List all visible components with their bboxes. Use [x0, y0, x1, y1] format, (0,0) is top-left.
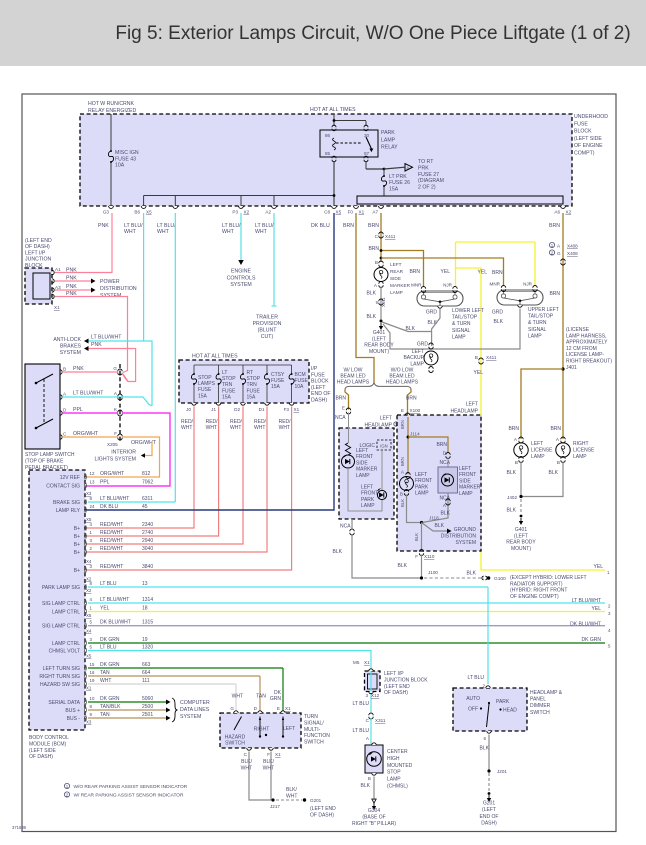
svg-text:PARK LAMP SIG: PARK LAMP SIG — [42, 585, 80, 591]
svg-text:10A: 10A — [295, 384, 305, 390]
svg-text:SWITCH: SWITCH — [225, 741, 245, 747]
svg-text:TAN: TAN — [100, 712, 110, 718]
svg-text:B: B — [63, 367, 66, 372]
svg-text:15: 15 — [90, 662, 95, 667]
svg-text:RIGHT: RIGHT — [254, 727, 270, 733]
svg-text:LEFT I/P: LEFT I/P — [25, 250, 46, 256]
svg-text:FUSE 27: FUSE 27 — [418, 172, 439, 178]
svg-text:B+: B+ — [74, 526, 80, 532]
svg-text:RED/: RED/ — [181, 419, 194, 425]
svg-text:DIMMER: DIMMER — [530, 703, 551, 709]
svg-text:18: 18 — [142, 606, 148, 612]
svg-text:FUSE: FUSE — [271, 378, 285, 384]
svg-text:15A: 15A — [247, 394, 257, 400]
svg-text:BLK: BLK — [414, 533, 419, 541]
svg-text:SIGNAL: SIGNAL — [452, 328, 471, 334]
svg-text:HAZARD SW SIG: HAZARD SW SIG — [40, 682, 80, 688]
svg-text:X205: X205 — [107, 442, 118, 447]
svg-text:G401: G401 — [373, 330, 385, 336]
svg-text:LOWER LEFT: LOWER LEFT — [452, 308, 484, 314]
svg-text:3040: 3040 — [142, 546, 153, 552]
svg-text:LAMP RLY: LAMP RLY — [56, 508, 81, 514]
svg-text:RT: RT — [247, 370, 254, 376]
svg-text:X408: X408 — [567, 244, 578, 249]
svg-text:BCM: BCM — [295, 372, 306, 378]
svg-text:LEFT: LEFT — [459, 466, 471, 472]
svg-text:BLK: BLK — [467, 571, 477, 577]
svg-text:SIDE: SIDE — [390, 276, 401, 281]
svg-text:(LEFT END: (LEFT END — [310, 806, 336, 812]
svg-text:86: 86 — [325, 133, 331, 138]
svg-text:BLK/: BLK/ — [286, 787, 297, 793]
svg-text:LEFT TURN SIG: LEFT TURN SIG — [43, 666, 80, 672]
svg-text:3: 3 — [365, 693, 368, 698]
svg-text:TAIL/STOP: TAIL/STOP — [452, 315, 478, 321]
svg-text:X5: X5 — [146, 210, 152, 215]
svg-text:WHT: WHT — [124, 229, 137, 235]
svg-text:G201: G201 — [310, 798, 322, 803]
svg-text:J402: J402 — [507, 495, 517, 500]
svg-text:LT BLU/WHT: LT BLU/WHT — [100, 496, 129, 502]
svg-text:CONTACT SIG: CONTACT SIG — [46, 484, 80, 490]
svg-text:LT BLU: LT BLU — [468, 675, 485, 681]
svg-text:2340: 2340 — [142, 522, 153, 528]
svg-text:NCA: NCA — [439, 496, 450, 502]
svg-text:LT BLU/: LT BLU/ — [222, 223, 241, 229]
svg-text:SIG LAMP CTRL: SIG LAMP CTRL — [42, 601, 80, 607]
svg-text:RIGHT TURN SIG: RIGHT TURN SIG — [39, 674, 80, 680]
svg-text:LAMP: LAMP — [459, 491, 473, 497]
svg-text:J100: J100 — [428, 570, 438, 575]
svg-text:CTSY: CTSY — [271, 372, 285, 378]
svg-text:LT BLU/WHT: LT BLU/WHT — [572, 598, 601, 604]
svg-text:X100: X100 — [410, 408, 421, 413]
svg-text:NCA: NCA — [340, 524, 351, 530]
svg-text:TURN: TURN — [304, 714, 318, 720]
svg-text:YEL: YEL — [478, 270, 488, 276]
svg-text:LT BLU/WHT: LT BLU/WHT — [73, 391, 104, 397]
svg-text:LEFT: LEFT — [356, 448, 368, 454]
svg-text:HIGH: HIGH — [387, 756, 400, 762]
svg-text:(LEFT: (LEFT — [311, 385, 326, 391]
svg-text:BRN: BRN — [550, 426, 561, 432]
svg-text:BACKUP: BACKUP — [403, 355, 424, 361]
svg-text:I/P: I/P — [311, 366, 318, 372]
svg-text:MULTI-: MULTI- — [304, 727, 321, 733]
svg-text:WHT: WHT — [241, 765, 252, 771]
svg-text:RED/WHT: RED/WHT — [100, 522, 123, 528]
svg-text:LEFT: LEFT — [415, 472, 427, 478]
svg-text:BLK: BLK — [367, 314, 377, 320]
svg-text:MISC IGN: MISC IGN — [115, 150, 139, 156]
svg-text:LEFT: LEFT — [283, 726, 295, 732]
svg-text:WHT: WHT — [254, 425, 265, 431]
svg-text:SWITCH: SWITCH — [530, 710, 550, 716]
svg-text:664: 664 — [142, 670, 151, 676]
svg-text:ENGINE: ENGINE — [231, 269, 251, 275]
svg-text:(HYBRID: RIGHT FRONT: (HYBRID: RIGHT FRONT — [510, 588, 567, 594]
svg-text:WHT: WHT — [222, 229, 235, 235]
svg-text:B: B — [375, 260, 378, 265]
svg-text:X311: X311 — [375, 718, 386, 723]
svg-text:SYSTEM: SYSTEM — [60, 350, 81, 356]
svg-text:CENTER: CENTER — [387, 749, 408, 755]
svg-text:HOT AT ALL TIMES: HOT AT ALL TIMES — [310, 107, 356, 113]
svg-text:15A: 15A — [271, 384, 281, 390]
svg-text:15A: 15A — [198, 393, 208, 399]
svg-text:BLK: BLK — [507, 470, 517, 476]
svg-text:LT BLU/: LT BLU/ — [255, 223, 274, 229]
svg-text:GRD: GRD — [492, 310, 504, 316]
svg-text:LT BLU: LT BLU — [100, 645, 117, 651]
svg-text:X1: X1 — [294, 407, 300, 412]
svg-text:X1: X1 — [54, 305, 60, 310]
svg-text:B: B — [368, 776, 371, 781]
svg-text:DK GRN: DK GRN — [100, 662, 120, 668]
svg-text:LT BLU/WHT: LT BLU/WHT — [91, 335, 122, 341]
svg-text:A2: A2 — [265, 210, 271, 215]
svg-text:LAMP: LAMP — [387, 777, 401, 783]
svg-text:ORG/WHT: ORG/WHT — [131, 440, 157, 446]
svg-text:MNR: MNR — [411, 283, 422, 288]
svg-text:FUSE: FUSE — [222, 388, 236, 394]
svg-text:LAMP: LAMP — [356, 473, 370, 479]
svg-text:LICENSE: LICENSE — [573, 448, 595, 454]
svg-text:15A: 15A — [222, 394, 232, 400]
svg-text:1320: 1320 — [142, 645, 153, 651]
svg-text:GRD: GRD — [426, 310, 438, 316]
svg-text:ANTI-LOCK: ANTI-LOCK — [53, 337, 81, 343]
svg-text:TAN: TAN — [100, 670, 110, 676]
svg-text:LEFT: LEFT — [531, 441, 543, 447]
svg-text:A7: A7 — [372, 210, 378, 215]
svg-text:STOP: STOP — [387, 770, 401, 776]
svg-text:LAMP: LAMP — [573, 454, 587, 460]
svg-text:J0: J0 — [186, 407, 191, 412]
svg-text:LICENSE: LICENSE — [531, 448, 553, 454]
svg-text:X1: X1 — [359, 210, 365, 215]
svg-text:FUSE: FUSE — [574, 121, 588, 127]
svg-text:BUS +: BUS + — [65, 708, 80, 714]
svg-text:(BASE OF: (BASE OF — [362, 814, 385, 820]
svg-text:POWER: POWER — [100, 279, 120, 285]
svg-text:6: 6 — [483, 736, 486, 741]
svg-text:B: B — [475, 355, 478, 360]
svg-text:LEFT: LEFT — [390, 262, 402, 267]
svg-text:LT BLU/: LT BLU/ — [157, 223, 176, 229]
svg-text:OF ENGINE COMPT): OF ENGINE COMPT) — [510, 594, 559, 600]
svg-text:SYSTEM: SYSTEM — [455, 540, 476, 546]
svg-text:111: 111 — [142, 678, 150, 684]
svg-text:B+: B+ — [74, 550, 80, 556]
svg-text:LT BLU: LT BLU — [353, 701, 370, 707]
svg-text:UPPER LEFT: UPPER LEFT — [528, 307, 559, 313]
svg-text:BLOCK: BLOCK — [311, 379, 329, 385]
svg-text:X408: X408 — [567, 251, 578, 256]
svg-text:G: G — [113, 366, 117, 371]
svg-text:JUNCTION: JUNCTION — [25, 257, 51, 263]
svg-text:(LEFT: (LEFT — [482, 807, 496, 813]
svg-text:LAMP: LAMP — [390, 290, 403, 295]
svg-text:WHT: WHT — [286, 793, 297, 799]
svg-text:BLK: BLK — [507, 508, 517, 514]
svg-text:BODY CONTROL: BODY CONTROL — [29, 735, 69, 741]
svg-text:PNK: PNK — [66, 284, 77, 290]
svg-text:BRN: BRN — [549, 291, 560, 297]
svg-text:G: G — [230, 706, 234, 711]
svg-text:12: 12 — [90, 471, 95, 476]
svg-text:TRAILER: TRAILER — [256, 315, 278, 321]
svg-text:87: 87 — [364, 151, 370, 156]
svg-text:FRONT: FRONT — [361, 491, 378, 497]
svg-text:24: 24 — [90, 504, 95, 509]
svg-text:BLK: BLK — [398, 563, 408, 569]
svg-text:WHT: WHT — [263, 765, 274, 771]
svg-text:WHT: WHT — [181, 425, 192, 431]
svg-text:LAMP CTRL: LAMP CTRL — [52, 641, 80, 647]
svg-text:NCA: NCA — [335, 415, 346, 421]
svg-text:WHT: WHT — [232, 694, 243, 700]
svg-text:BRAKES: BRAKES — [60, 343, 82, 349]
svg-text:BLK: BLK — [480, 746, 490, 752]
svg-text:RED/WHT: RED/WHT — [100, 530, 123, 536]
svg-text:MOUNT): MOUNT) — [369, 349, 389, 355]
svg-text:12V REF: 12V REF — [60, 475, 80, 481]
svg-text:BRN: BRN — [409, 269, 420, 275]
svg-text:F0: F0 — [348, 210, 354, 215]
svg-text:(LEFT: (LEFT — [372, 336, 386, 342]
svg-text:J118: J118 — [429, 516, 439, 521]
svg-text:TAN/BLK: TAN/BLK — [100, 704, 121, 710]
svg-text:YEL: YEL — [474, 370, 484, 376]
svg-text:Fig 5: Exterior Lamps Circuit,: Fig 5: Exterior Lamps Circuit, W/O One P… — [115, 23, 630, 44]
svg-text:BLK: BLK — [333, 549, 343, 555]
svg-text:HEADLAMP: HEADLAMP — [450, 409, 478, 415]
svg-text:663: 663 — [142, 662, 151, 668]
svg-text:CONTROLS: CONTROLS — [227, 275, 256, 281]
svg-text:RED/: RED/ — [206, 419, 219, 425]
svg-text:LEFT: LEFT — [380, 416, 392, 422]
svg-text:BLK: BLK — [367, 291, 377, 297]
svg-text:LT: LT — [222, 370, 227, 376]
svg-text:LAMP: LAMP — [528, 333, 542, 339]
svg-text:COMPT): COMPT) — [574, 151, 595, 157]
svg-text:MNR: MNR — [490, 282, 501, 287]
svg-text:LT BLU: LT BLU — [100, 581, 117, 587]
svg-text:STOP: STOP — [247, 376, 261, 382]
svg-text:B: B — [400, 492, 403, 497]
svg-text:OF DASH): OF DASH) — [310, 813, 334, 819]
svg-text:A3: A3 — [55, 285, 61, 290]
svg-text:X110: X110 — [424, 554, 435, 559]
svg-text:X1: X1 — [86, 686, 92, 691]
svg-text:OF DASH): OF DASH) — [29, 754, 53, 760]
svg-text:X5: X5 — [86, 613, 92, 618]
svg-text:LAMP HARNESS,: LAMP HARNESS, — [566, 333, 606, 339]
svg-text:(DIAGRAM: (DIAGRAM — [418, 178, 444, 184]
svg-text:RED/WHT: RED/WHT — [100, 538, 123, 544]
svg-text:LEFT: LEFT — [361, 485, 373, 491]
svg-text:HAZARD: HAZARD — [225, 735, 246, 741]
svg-text:REAR: REAR — [390, 269, 404, 274]
svg-text:PNK: PNK — [98, 223, 109, 229]
svg-text:SIDE: SIDE — [459, 478, 471, 484]
svg-text:PARK: PARK — [381, 130, 395, 136]
svg-text:(LICENSE: (LICENSE — [566, 327, 590, 333]
svg-text:X5: X5 — [86, 654, 92, 659]
svg-text:LEFT: LEFT — [412, 349, 424, 355]
svg-text:DK BLU/WHT: DK BLU/WHT — [570, 622, 601, 628]
svg-text:LEFT: LEFT — [466, 402, 478, 408]
svg-text:A6: A6 — [554, 210, 560, 215]
svg-text:LAMP CTRL: LAMP CTRL — [52, 610, 80, 616]
svg-text:E: E — [277, 706, 280, 711]
svg-text:LAMP: LAMP — [415, 491, 429, 497]
svg-text:1315: 1315 — [142, 620, 153, 626]
svg-text:DK BLU: DK BLU — [311, 223, 330, 229]
svg-text:TO RT: TO RT — [418, 159, 434, 165]
svg-text:IGN: IGN — [380, 443, 387, 448]
svg-text:ORG/WHT: ORG/WHT — [73, 431, 99, 437]
svg-text:BRN: BRN — [343, 223, 354, 229]
svg-text:FUSE: FUSE — [295, 378, 309, 384]
svg-text:(EXCEPT HYBRID: LOWER LEFT: (EXCEPT HYBRID: LOWER LEFT — [510, 575, 587, 581]
svg-text:OF ENGINE: OF ENGINE — [574, 143, 603, 149]
svg-text:G3: G3 — [103, 210, 110, 215]
svg-text:371639: 371639 — [12, 825, 27, 830]
svg-text:J114: J114 — [410, 432, 420, 437]
svg-text:HOT AT ALL TIMES: HOT AT ALL TIMES — [192, 354, 238, 360]
svg-text:(BLUNT: (BLUNT — [258, 328, 278, 334]
svg-text:G100: G100 — [494, 576, 506, 582]
svg-text:X411: X411 — [381, 297, 386, 307]
svg-text:BLK: BLK — [549, 470, 559, 476]
svg-text:G: G — [557, 251, 561, 256]
svg-text:SYSTEM: SYSTEM — [180, 714, 201, 720]
svg-text:RADIATOR SUPPORT): RADIATOR SUPPORT) — [510, 581, 563, 587]
svg-text:FUSE: FUSE — [311, 372, 325, 378]
svg-text:HEAD LAMPS: HEAD LAMPS — [386, 380, 419, 386]
svg-text:RIGHT BREAKOUT): RIGHT BREAKOUT) — [566, 359, 612, 365]
svg-text:BRN: BRN — [335, 396, 346, 402]
svg-text:F: F — [267, 752, 270, 757]
svg-text:X1: X1 — [364, 660, 370, 665]
svg-text:FUSE 26: FUSE 26 — [389, 180, 410, 186]
svg-text:PROVISION: PROVISION — [253, 321, 282, 327]
svg-text:10: 10 — [90, 696, 95, 701]
svg-text:PARK: PARK — [496, 699, 510, 705]
svg-text:BRN: BRN — [368, 223, 379, 229]
svg-text:(LEFT SIDE: (LEFT SIDE — [29, 748, 57, 754]
svg-text:5060: 5060 — [142, 696, 153, 702]
svg-text:(LEFT: (LEFT — [514, 533, 528, 539]
svg-text:DK GRN: DK GRN — [582, 637, 602, 643]
svg-text:BLK: BLK — [406, 326, 416, 332]
svg-text:END OF: END OF — [311, 391, 331, 397]
svg-text:P3: P3 — [232, 210, 238, 215]
svg-text:13: 13 — [142, 581, 148, 587]
svg-text:RIGHT "B" PILLAR): RIGHT "B" PILLAR) — [352, 821, 396, 827]
svg-text:1314: 1314 — [142, 597, 153, 603]
svg-text:A1: A1 — [55, 267, 61, 272]
svg-text:(LEFT END: (LEFT END — [25, 238, 52, 244]
svg-text:BLOCK: BLOCK — [574, 129, 592, 135]
svg-text:BRN: BRN — [400, 457, 405, 466]
svg-text:MARKER: MARKER — [356, 467, 378, 473]
svg-text:RED/WHT: RED/WHT — [100, 564, 123, 570]
svg-text:F: F — [415, 554, 418, 559]
svg-text:19: 19 — [142, 637, 148, 643]
svg-text:YEL: YEL — [594, 564, 604, 570]
svg-text:D2: D2 — [234, 407, 240, 412]
svg-text:FUNCTION: FUNCTION — [304, 733, 330, 739]
svg-text:B: B — [515, 460, 518, 465]
svg-text:SYSTEM: SYSTEM — [230, 282, 251, 288]
svg-text:(LEFT SIDE: (LEFT SIDE — [574, 136, 602, 142]
svg-text:LT BLU: LT BLU — [353, 728, 370, 734]
svg-text:PPL: PPL — [73, 407, 83, 413]
svg-text:CUT): CUT) — [261, 334, 274, 340]
svg-text:STOP LAMP SWITCH: STOP LAMP SWITCH — [25, 452, 75, 458]
svg-text:NJR: NJR — [443, 283, 453, 288]
svg-text:PARK: PARK — [361, 497, 375, 503]
svg-text:BLK/: BLK/ — [263, 759, 274, 765]
svg-text:BLK: BLK — [400, 499, 405, 507]
svg-text:HEADLAMP &: HEADLAMP & — [530, 690, 563, 696]
svg-text:J201: J201 — [497, 769, 507, 774]
svg-text:WHT: WHT — [279, 425, 290, 431]
svg-text:G201: G201 — [483, 801, 495, 807]
svg-text:X411: X411 — [486, 355, 497, 360]
svg-text:X1: X1 — [275, 752, 281, 757]
svg-text:LT BLU/: LT BLU/ — [124, 223, 143, 229]
svg-text:DATA LINES: DATA LINES — [180, 707, 210, 713]
svg-text:GROUND: GROUND — [454, 527, 477, 533]
svg-text:BRN: BRN — [368, 246, 379, 252]
svg-text:FUSE 43: FUSE 43 — [115, 156, 136, 162]
svg-text:DK BLU/WHT: DK BLU/WHT — [100, 620, 131, 626]
svg-text:G304: G304 — [368, 808, 380, 814]
svg-text:812: 812 — [142, 471, 151, 477]
svg-text:BRN: BRN — [436, 442, 447, 448]
svg-text:45: 45 — [142, 504, 148, 510]
svg-text:BLK: BLK — [361, 783, 371, 789]
svg-text:DK BLU: DK BLU — [100, 504, 118, 510]
svg-text:APPROXIMATELY: APPROXIMATELY — [566, 340, 608, 346]
svg-text:RIGHT: RIGHT — [573, 441, 589, 447]
svg-text:SIGNAL: SIGNAL — [528, 327, 547, 333]
svg-text:G401: G401 — [515, 527, 527, 533]
svg-text:X411: X411 — [385, 234, 396, 239]
svg-text:DK GRN: DK GRN — [100, 637, 120, 643]
svg-text:X2: X2 — [244, 210, 250, 215]
svg-text:YEL: YEL — [441, 269, 451, 275]
svg-text:MARKER: MARKER — [390, 283, 411, 288]
svg-text:PNK: PNK — [91, 342, 102, 348]
svg-text:NCA: NCA — [439, 460, 450, 466]
svg-text:RED/WHT: RED/WHT — [100, 546, 123, 552]
svg-text:CHMSL VOLT: CHMSL VOLT — [49, 649, 80, 655]
svg-text:B6: B6 — [134, 210, 140, 215]
svg-text:W/ REAR PARKING ASSIST SENSOR: W/ REAR PARKING ASSIST SENSOR INDICATOR — [74, 793, 185, 799]
svg-text:LAMP: LAMP — [452, 334, 466, 340]
svg-text:15A: 15A — [389, 186, 399, 192]
svg-text:B: B — [557, 460, 560, 465]
svg-text:BRAKE SIG: BRAKE SIG — [53, 500, 80, 506]
svg-text:10A: 10A — [115, 163, 125, 169]
svg-text:16: 16 — [90, 670, 95, 675]
svg-text:FUSE: FUSE — [198, 387, 212, 393]
